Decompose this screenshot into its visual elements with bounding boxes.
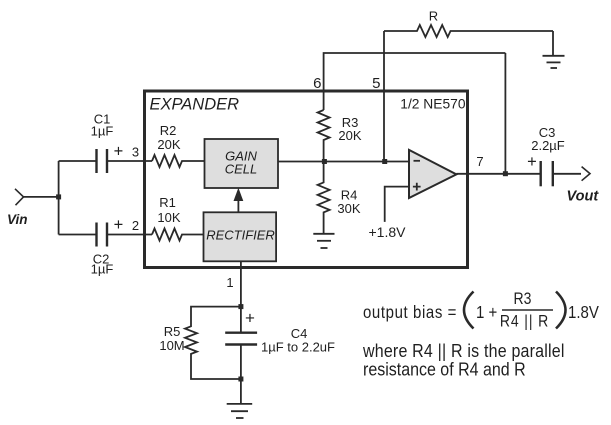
node output junction [503, 171, 508, 176]
svg-text:1/2 NE570: 1/2 NE570 [400, 97, 466, 112]
node R3/R4 junction [322, 159, 327, 164]
resistor R5 [159, 307, 241, 379]
wire to bottom ground [240, 379, 242, 404]
block RECTIFIER [204, 212, 277, 261]
svg-text:+: + [245, 309, 255, 328]
svg-text:6: 6 [313, 75, 321, 92]
svg-text:EXPANDER: EXPANDER [150, 96, 240, 114]
svg-text:R: R [429, 9, 438, 24]
wire pin 1 [240, 261, 242, 306]
node C4 bottom junction [238, 377, 243, 382]
svg-text:R5: R5 [164, 324, 181, 339]
svg-text:CELL: CELL [225, 162, 258, 177]
wire R right lead down to ground [552, 31, 554, 56]
svg-text:+1.8V: +1.8V [369, 224, 407, 240]
wire input to junction [24, 196, 59, 198]
resistor R1 [152, 195, 204, 241]
node pin5 junction [382, 159, 387, 164]
ground (top right) [543, 56, 565, 68]
capacitor C1 [59, 112, 152, 174]
svg-text:RECTIFIER: RECTIFIER [206, 228, 275, 243]
svg-text:2.2µF: 2.2µF [531, 138, 565, 153]
svg-text:Vout: Vout [567, 189, 600, 205]
wire output node vertical [504, 53, 506, 174]
block GAIN CELL [205, 139, 279, 188]
svg-text:Vin: Vin [7, 212, 28, 227]
resistor R [384, 9, 553, 38]
input terminal Vin [7, 189, 28, 227]
capacitor C3 [531, 125, 581, 186]
svg-text:R1: R1 [159, 195, 176, 210]
ground (under R4) [313, 234, 334, 248]
svg-text:resistance of R4 and R: resistance of R4 and R [363, 358, 526, 380]
svg-text:R4 || R: R4 || R [500, 312, 549, 330]
wire feedback from output node to pin 6 [324, 53, 506, 110]
wire gain cell to op-amp minus input [278, 161, 409, 163]
svg-text:1 +: 1 + [476, 303, 497, 322]
svg-text:10K: 10K [157, 210, 180, 225]
formula fraction bar [502, 309, 553, 311]
resistor R2 [152, 123, 205, 167]
resistor R4 [318, 162, 361, 234]
svg-text:1.8V: 1.8V [568, 303, 599, 322]
arrow rectifier to gain cell [234, 188, 244, 213]
svg-text:+: + [114, 216, 124, 234]
capacitor C4 [225, 307, 335, 379]
formula left parenthesis [464, 292, 474, 329]
IC boundary 1/2 NE570 [145, 91, 468, 268]
output terminal Vout [567, 167, 600, 205]
svg-text:20K: 20K [157, 137, 180, 152]
node input junction [56, 194, 61, 199]
svg-text:+: + [527, 153, 537, 171]
svg-text:1µF: 1µF [91, 262, 114, 277]
resistor R3 [318, 110, 362, 162]
formula right parenthesis [556, 292, 566, 329]
svg-text:3: 3 [132, 145, 139, 160]
svg-text:R2: R2 [160, 123, 177, 138]
svg-text:R3: R3 [514, 290, 532, 308]
svg-text:1: 1 [226, 275, 233, 290]
svg-text:20K: 20K [338, 128, 361, 143]
svg-text:1µF: 1µF [91, 124, 114, 139]
svg-text:output bias =: output bias = [363, 303, 457, 322]
wire op-amp output [456, 173, 540, 175]
wire input branch vertical [58, 161, 60, 235]
ground (bottom) [227, 404, 253, 418]
svg-text:10M: 10M [159, 338, 184, 353]
op-amp U1 [409, 150, 456, 198]
svg-text:5: 5 [372, 75, 380, 92]
svg-text:+: + [114, 143, 124, 161]
wire pin5 to R left lead [383, 31, 385, 162]
formula output bias [363, 290, 599, 331]
svg-text:7: 7 [476, 154, 483, 169]
svg-text:30K: 30K [337, 201, 360, 216]
capacitor C2 [59, 223, 152, 277]
svg-text:2: 2 [132, 218, 139, 233]
supply +1.8V [369, 187, 409, 240]
formula where clause [362, 340, 565, 380]
node C4 top junction [238, 304, 243, 309]
svg-text:1µF to 2.2uF: 1µF to 2.2uF [261, 340, 335, 355]
